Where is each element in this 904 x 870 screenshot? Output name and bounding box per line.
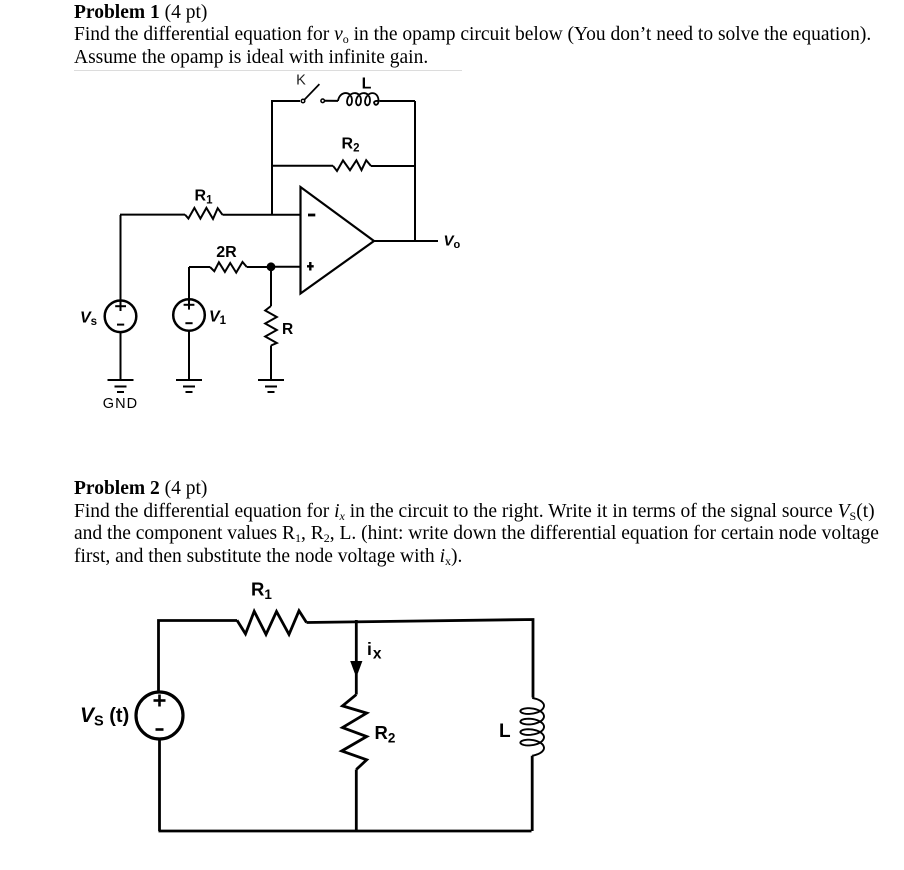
- svg-text:R2: R2: [342, 136, 360, 155]
- resistor R1: [237, 611, 307, 635]
- resistor R2: [342, 695, 367, 770]
- resistor R: [265, 267, 277, 380]
- problem 1 text: [74, 2, 871, 70]
- op-amp plus pin: [307, 262, 314, 271]
- wire top-left vertical: [272, 101, 300, 215]
- source Vs: [105, 301, 137, 333]
- op-amp minus pin: [308, 214, 315, 217]
- wire arrow to R2: [355, 674, 358, 695]
- op-amp U1: [301, 187, 375, 294]
- svg-text:VS (t): VS (t): [80, 704, 129, 730]
- wire Vs top: [120, 215, 122, 302]
- svg-text:R1: R1: [251, 579, 272, 603]
- ground under R: [258, 380, 284, 392]
- wire output: [374, 240, 438, 242]
- svg-text:R1: R1: [195, 188, 214, 207]
- wire Vs bottom: [120, 332, 122, 380]
- svg-text:Vs: Vs: [80, 310, 97, 329]
- problem 2 text: [74, 478, 879, 568]
- wire V1 bottom: [188, 331, 190, 380]
- wire L bottom: [531, 756, 534, 831]
- source V1: [173, 267, 205, 331]
- ground GND: [108, 380, 134, 392]
- wire bottom: [159, 830, 532, 833]
- inductor L: [338, 93, 380, 105]
- source Vs(t): [136, 692, 183, 739]
- wire top right: [307, 620, 534, 698]
- node + junction dot: [267, 262, 276, 271]
- resistor R1: [120, 208, 300, 219]
- wire inductor to right corner: [380, 100, 415, 102]
- wire top left: [159, 621, 238, 693]
- faint image edge line: [74, 70, 462, 71]
- svg-text:Vo: Vo: [444, 233, 461, 252]
- svg-text:L: L: [499, 721, 511, 742]
- svg-text:R: R: [282, 321, 293, 338]
- switch K: [301, 84, 338, 103]
- svg-text:2R: 2R: [216, 244, 237, 261]
- svg-text:R2: R2: [375, 722, 396, 746]
- wire middle with arrow: [355, 620, 358, 663]
- wire Vs bottom: [158, 739, 161, 831]
- svg-text:V1: V1: [209, 309, 227, 328]
- wire R2 bottom: [355, 770, 358, 832]
- arrow ix: [350, 661, 362, 678]
- wire right vertical: [414, 101, 416, 241]
- ground under V1: [176, 380, 202, 392]
- resistor 2R: [189, 262, 271, 273]
- inductor L: [520, 698, 544, 756]
- svg-text:GND: GND: [103, 396, 139, 412]
- svg-text:K: K: [296, 73, 306, 89]
- resistor R2: [272, 160, 415, 171]
- svg-text:ix: ix: [367, 639, 382, 663]
- wire to plus input: [271, 266, 301, 268]
- svg-text:L: L: [362, 75, 372, 92]
